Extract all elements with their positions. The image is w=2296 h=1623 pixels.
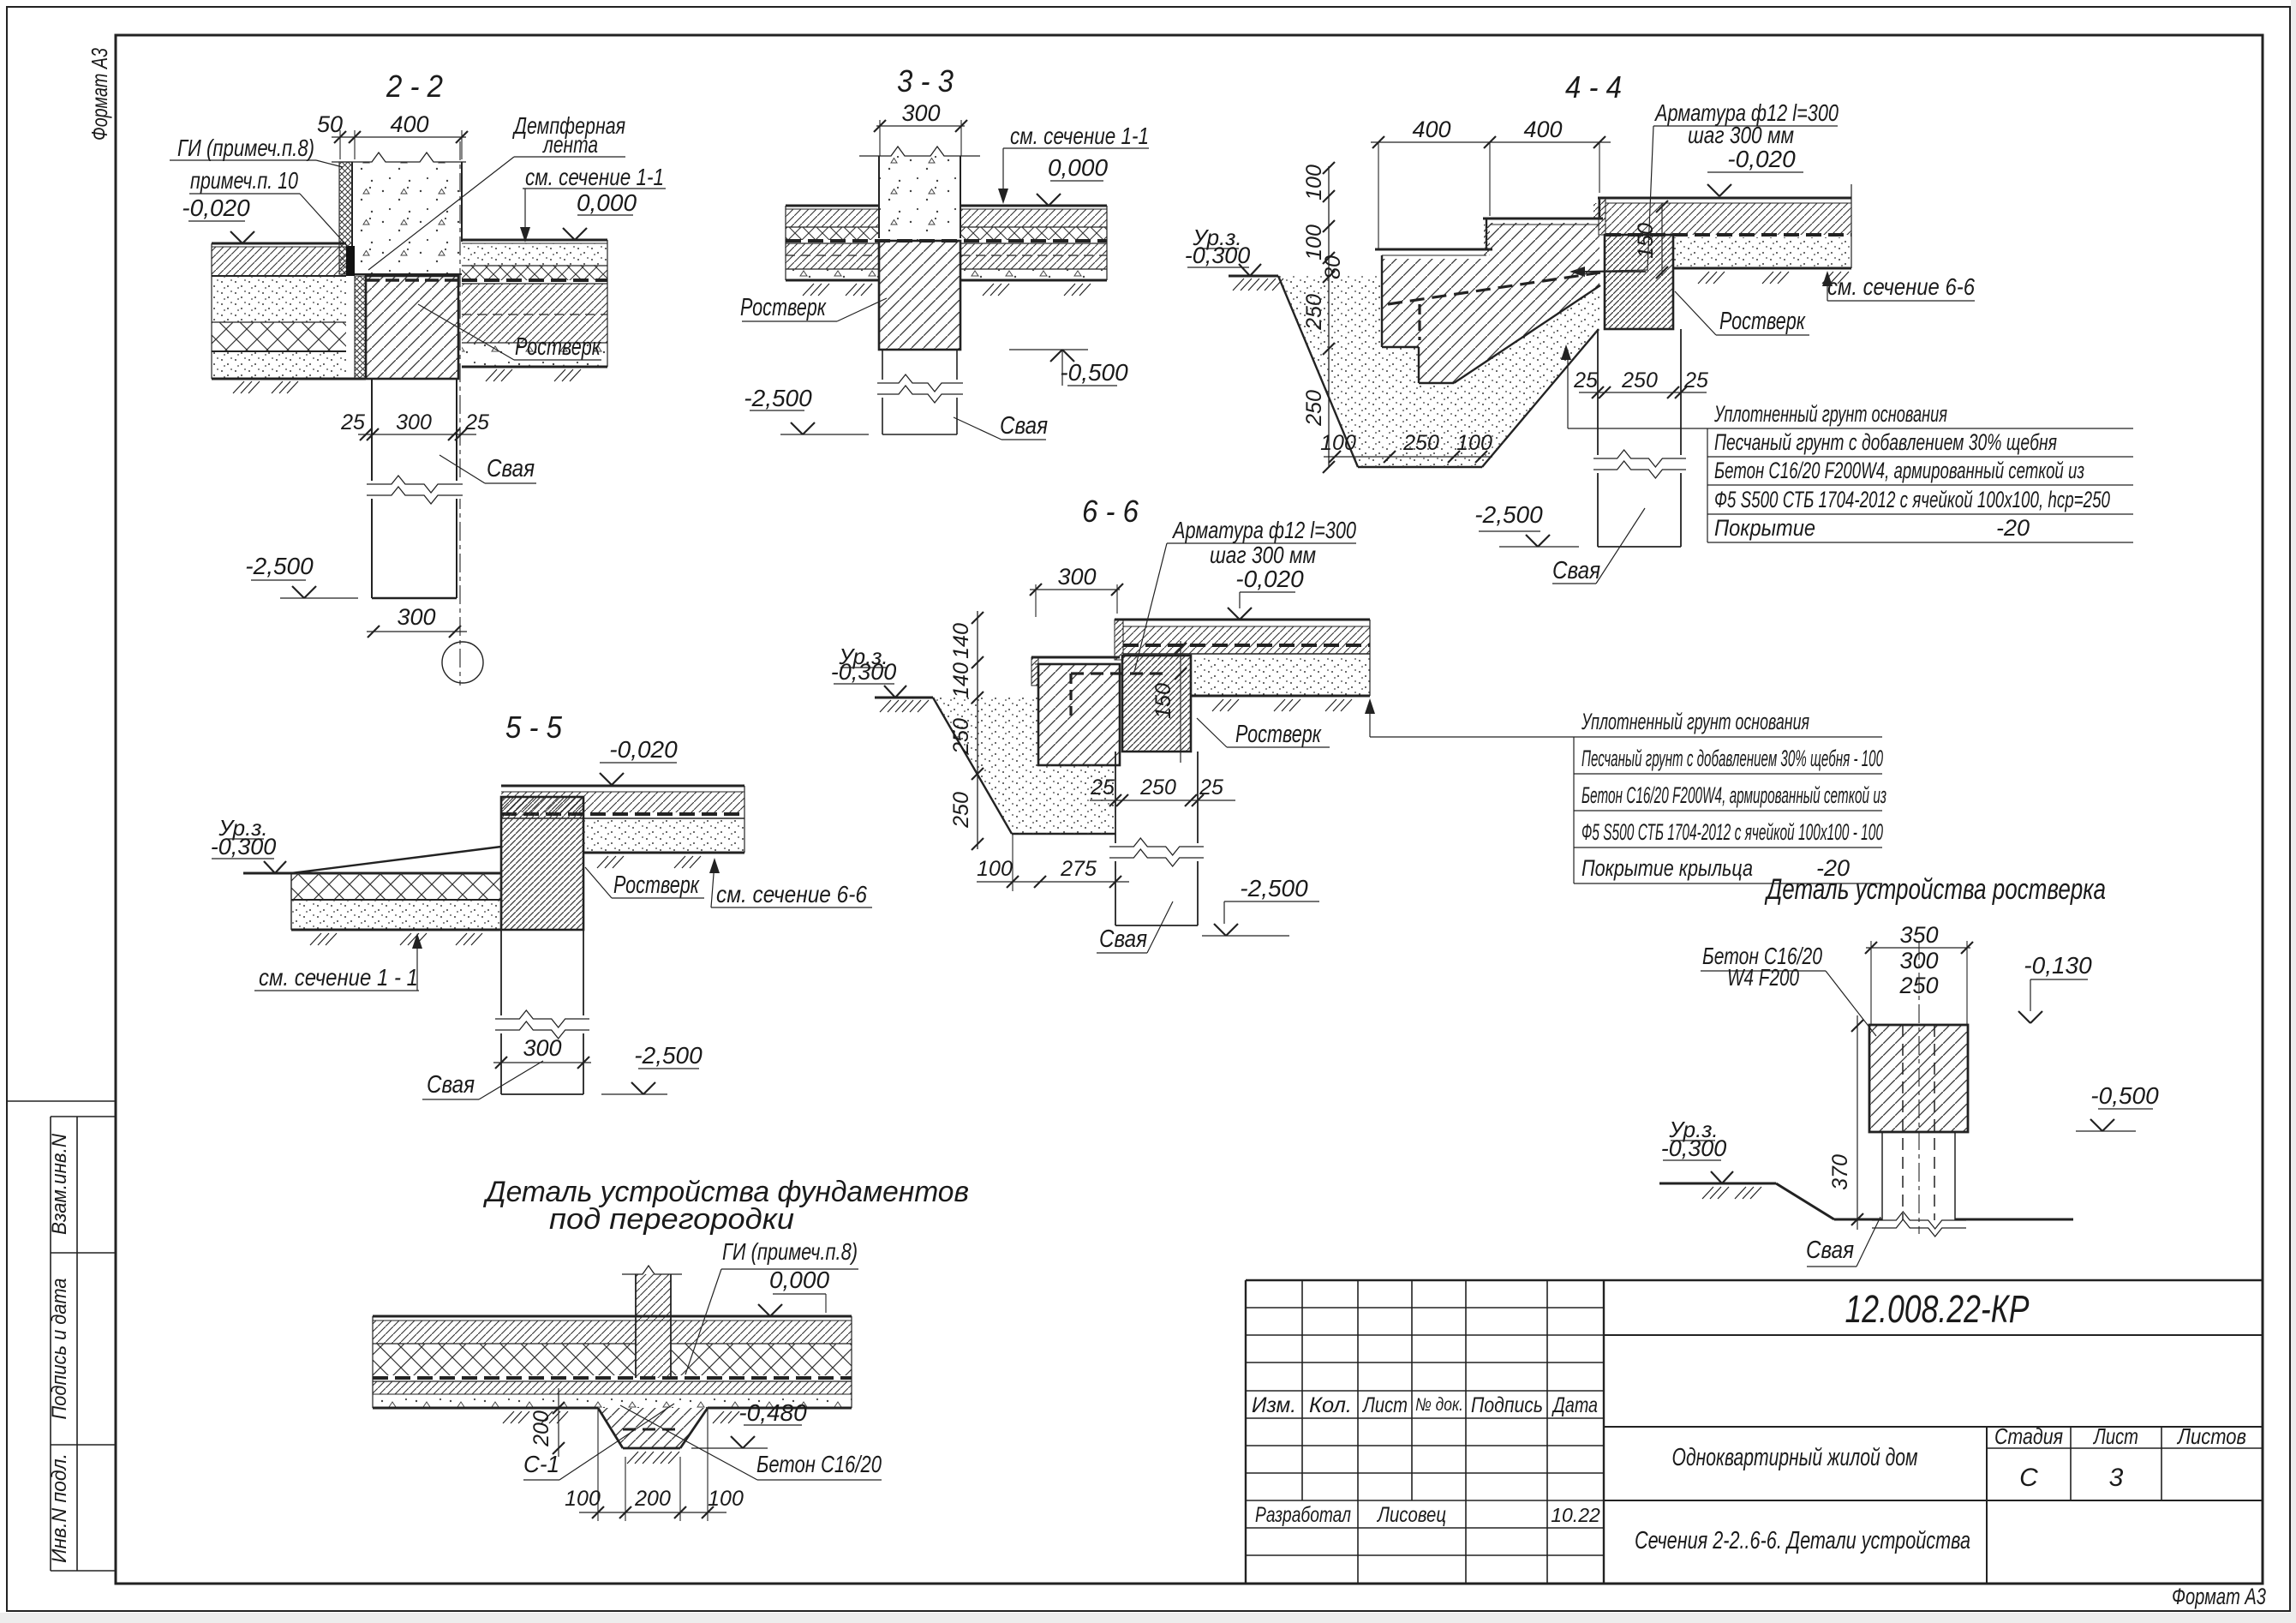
svg-text:0,000: 0,000 [1048,154,1108,181]
svg-text:Арматура ф12 l=300: Арматура ф12 l=300 [1171,517,1356,543]
svg-text:140: 140 [949,623,973,659]
svg-text:250: 250 [949,792,973,829]
svg-text:ГИ (примеч.п.8): ГИ (примеч.п.8) [177,135,314,161]
svg-text:Ф5 S500 СТБ 1704-2012 с ячейко: Ф5 S500 СТБ 1704-2012 с ячейкой 100x100,… [1714,487,2110,512]
svg-text:Ростверк: Ростверк [613,871,700,899]
svg-text:25: 25 [1573,368,1598,392]
svg-text:200: 200 [529,1410,553,1447]
svg-text:400: 400 [1523,117,1562,142]
svg-text:2 - 2: 2 - 2 [386,69,443,104]
svg-text:140: 140 [949,662,973,698]
svg-text:-0,480: -0,480 [738,1399,807,1426]
svg-text:-2,500: -2,500 [245,553,314,579]
svg-text:25: 25 [340,410,365,434]
svg-text:Кол.: Кол. [1309,1393,1352,1417]
svg-text:Лист: Лист [2092,1423,2138,1449]
svg-text:250: 250 [1402,431,1439,455]
svg-text:-0,020: -0,020 [609,736,678,763]
svg-text:25: 25 [464,410,489,434]
svg-text:-0,500: -0,500 [2090,1082,2159,1109]
svg-text:W4 F200: W4 F200 [1727,964,1799,991]
svg-text:250: 250 [949,718,973,755]
svg-text:-2,500: -2,500 [1240,875,1308,901]
svg-text:100: 100 [1302,225,1326,261]
svg-text:Изм.: Изм. [1252,1393,1296,1417]
svg-text:Деталь устройства ростверка: Деталь устройства ростверка [1764,873,2106,906]
svg-text:Свая: Свая [1552,557,1600,584]
svg-text:150: 150 [1634,223,1658,259]
svg-text:-0,020: -0,020 [182,195,250,221]
svg-text:370: 370 [1828,1154,1852,1190]
svg-text:Ростверк: Ростверк [515,333,601,361]
svg-text:Покрытие крыльца: Покрытие крыльца [1581,855,1753,881]
svg-text:25: 25 [1199,776,1223,800]
svg-text:150: 150 [1151,683,1175,719]
svg-text:50: 50 [317,111,343,137]
svg-text:4 - 4: 4 - 4 [1565,69,1622,105]
svg-text:-0,300: -0,300 [1661,1135,1727,1161]
svg-text:Лист: Лист [1361,1393,1408,1417]
svg-text:25: 25 [1090,776,1115,800]
svg-text:100: 100 [1302,165,1326,201]
svg-text:0,000: 0,000 [769,1267,829,1293]
svg-text:Подпись и дата: Подпись и дата [48,1279,71,1420]
svg-text:Бетон С16/20 F200W4, армирован: Бетон С16/20 F200W4, армированный сеткой… [1714,458,2084,483]
svg-text:Ростверк: Ростверк [1719,308,1806,335]
svg-text:см. сечение 6-6: см. сечение 6-6 [1827,273,1975,300]
svg-text:12.008.22-КР: 12.008.22-КР [1845,1287,2030,1331]
svg-text:3 - 3: 3 - 3 [897,63,954,99]
svg-text:-2,500: -2,500 [744,385,812,411]
svg-text:см. сечение 1 - 1: см. сечение 1 - 1 [259,964,418,991]
svg-text:-0,130: -0,130 [2024,952,2092,979]
svg-text:400: 400 [1412,117,1450,142]
svg-text:300: 300 [397,604,435,630]
svg-text:С-1: С-1 [523,1451,559,1477]
svg-text:200: 200 [634,1487,671,1511]
svg-text:Уплотненный грунт основания: Уплотненный грунт основания [1713,401,1947,427]
svg-text:300: 300 [523,1035,561,1061]
svg-text:см. сечение 1-1: см. сечение 1-1 [1010,123,1149,149]
svg-text:Одноквартирный жилой дом: Одноквартирный жилой дом [1672,1444,1918,1471]
svg-text:250: 250 [1139,776,1176,800]
svg-text:Подпись: Подпись [1471,1393,1543,1417]
svg-text:примеч.п. 10: примеч.п. 10 [190,167,298,194]
svg-text:см. сечение 1-1: см. сечение 1-1 [525,164,664,190]
svg-text:3: 3 [2109,1464,2124,1492]
svg-text:Стадия: Стадия [1994,1423,2063,1449]
svg-text:под перегородки: под перегородки [549,1203,794,1236]
svg-text:100: 100 [565,1487,601,1511]
svg-text:5 - 5: 5 - 5 [505,710,563,745]
svg-text:лента: лента [542,131,598,158]
svg-text:300: 300 [1057,564,1096,590]
svg-text:ГИ (примеч.п.8): ГИ (примеч.п.8) [722,1238,858,1265]
svg-text:300: 300 [396,410,432,434]
svg-text:-2,500: -2,500 [634,1042,703,1069]
svg-text:Дата: Дата [1552,1393,1598,1417]
svg-text:300: 300 [901,100,940,126]
svg-text:Свая: Свая [1099,925,1147,953]
svg-text:Ф5 S500 СТБ 1704-2012 с ячейко: Ф5 S500 СТБ 1704-2012 с ячейкой 100x100 … [1581,819,1883,845]
svg-text:80: 80 [1321,255,1345,279]
svg-text:С: С [2019,1464,2038,1492]
svg-text:250: 250 [1302,390,1326,427]
svg-text:Свая: Свая [427,1071,475,1099]
svg-text:-2,500: -2,500 [1474,501,1543,528]
svg-text:Формат А3: Формат А3 [2172,1584,2266,1609]
svg-text:Лисовец: Лисовец [1376,1503,1446,1527]
svg-text:Листов: Листов [2176,1423,2246,1449]
svg-text:100: 100 [708,1487,744,1511]
svg-text:-0,020: -0,020 [1727,146,1796,172]
svg-text:100: 100 [977,857,1013,881]
svg-text:25: 25 [1683,368,1708,392]
svg-text:0,000: 0,000 [577,189,637,216]
svg-text:Бетон С16/20 F200W4, армирован: Бетон С16/20 F200W4, армированный сеткой… [1581,782,1886,808]
svg-text:-0,300: -0,300 [211,834,277,859]
svg-text:-0,500: -0,500 [1060,359,1128,386]
svg-text:250: 250 [1621,368,1658,392]
svg-text:-20: -20 [1996,515,2030,541]
svg-text:-0,020: -0,020 [1235,566,1304,592]
svg-text:Свая: Свая [1000,412,1048,440]
svg-text:Ростверк: Ростверк [1235,721,1322,748]
svg-text:400: 400 [390,111,428,137]
svg-text:см. сечение 6-6: см. сечение 6-6 [716,881,867,907]
svg-text:Покрытие: Покрытие [1714,515,1815,541]
svg-text:10.22: 10.22 [1551,1504,1600,1526]
svg-text:100: 100 [1320,431,1356,455]
svg-text:6 - 6: 6 - 6 [1082,494,1139,529]
svg-text:Уплотненный грунт основания: Уплотненный грунт основания [1581,709,1809,734]
svg-text:Свая: Свая [487,455,535,482]
svg-text:шаг 300 мм: шаг 300 мм [1210,542,1316,568]
svg-text:Песчаный грунт с добавлением 3: Песчаный грунт с добавлением 30% щебня [1714,429,2057,455]
svg-text:Взам.инв.N: Взам.инв.N [48,1133,71,1235]
svg-text:Бетон С16/20: Бетон С16/20 [756,1451,882,1477]
svg-text:Свая: Свая [1806,1237,1854,1264]
svg-text:-0,300: -0,300 [831,659,897,685]
svg-text:275: 275 [1060,857,1097,881]
svg-text:№ док.: № док. [1415,1395,1463,1415]
svg-text:Ростверк: Ростверк [740,294,827,321]
svg-text:100: 100 [1456,431,1492,455]
svg-text:Разработал: Разработал [1255,1503,1351,1527]
svg-text:Песчаный грунт с добавлением 3: Песчаный грунт с добавлением 30% щебня -… [1581,746,1883,771]
svg-text:Сечения 2-2..6-6. Детали устро: Сечения 2-2..6-6. Детали устройства [1635,1527,1970,1554]
svg-text:Инв.N подл.: Инв.N подл. [48,1453,71,1563]
svg-text:Формат А3: Формат А3 [87,48,112,141]
